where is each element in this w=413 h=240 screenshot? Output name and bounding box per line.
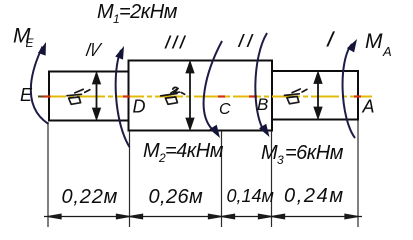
extension line C: [221, 131, 223, 227]
svg-text:IV: IV: [84, 39, 103, 61]
svg-text:E: E: [26, 36, 35, 50]
svg-text:=2кНм: =2кНм: [119, 1, 178, 23]
svg-text:II: II: [236, 31, 258, 52]
svg-text:A: A: [382, 44, 392, 59]
extension line D: [129, 131, 131, 227]
dimension line: [44, 214, 362, 218]
svg-text:III: III: [163, 33, 189, 54]
moment arc M1: [116, 50, 130, 147]
label M3=6kNm: [261, 142, 344, 167]
label M_E: [13, 25, 35, 51]
diameter label d1 right: [285, 89, 307, 104]
svg-text:M: M: [365, 30, 383, 53]
svg-text:М: М: [97, 1, 114, 23]
moment arc MA: [343, 44, 355, 138]
svg-text:D: D: [133, 97, 146, 117]
extension line E: [47, 122, 49, 227]
label M2=4kNm: [143, 140, 224, 165]
moment arc M2: [204, 41, 222, 132]
diameter arrow d2 middle: [187, 63, 194, 129]
moment arc M3: [255, 33, 267, 131]
extension line A: [357, 121, 359, 228]
svg-text:C: C: [219, 101, 231, 118]
diameter label d1 left: [67, 89, 90, 104]
diameter label d2 middle: [161, 87, 185, 104]
svg-text:М: М: [143, 140, 160, 162]
label M_A: [365, 30, 392, 59]
svg-text:3: 3: [277, 153, 284, 167]
svg-text:I: I: [324, 27, 336, 52]
svg-text:E: E: [20, 85, 33, 105]
shaft middle rectangle D-B: [129, 61, 273, 131]
shaft section IV-E rectangle: [49, 72, 129, 121]
moment arc M_E: [31, 47, 49, 125]
label M1=2kNm: [97, 1, 178, 26]
diameter arrow d1 right: [315, 73, 322, 118]
extension line B: [271, 131, 273, 227]
diameter arrow d1 left: [93, 74, 100, 119]
svg-text:М: М: [261, 142, 278, 164]
svg-text:0,24м: 0,24м: [284, 185, 345, 207]
svg-text:=4кНм: =4кНм: [165, 140, 224, 162]
svg-text:=6кНм: =6кНм: [285, 142, 344, 164]
svg-text:A: A: [362, 97, 375, 117]
svg-text:0,22м: 0,22м: [62, 186, 119, 208]
shaft section I rectangle B-A: [272, 71, 358, 120]
svg-text:B: B: [257, 95, 268, 114]
centerline axis: [38, 96, 372, 98]
svg-text:0,14м: 0,14м: [227, 186, 274, 206]
svg-text:0,26м: 0,26м: [149, 186, 204, 208]
